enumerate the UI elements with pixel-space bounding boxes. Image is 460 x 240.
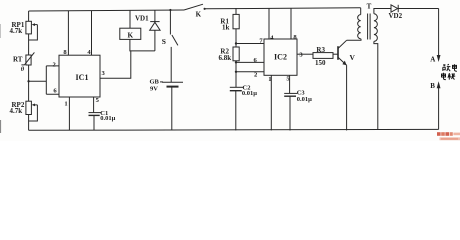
svg-text:T: T [367, 3, 372, 11]
battery GB 9V [150, 79, 184, 131]
potentiometer RP1 [10, 11, 38, 55]
wire IC1 pin4 to rail [91, 11, 93, 55]
relay coil K [120, 10, 155, 51]
capacitor C2 [230, 84, 257, 130]
switch S [162, 9, 178, 82]
svg-text:6.8k: 6.8k [219, 54, 232, 62]
scan smudge left edge [0, 120, 2, 133]
resistor R3 [297, 46, 338, 67]
svg-text:4: 4 [270, 34, 274, 41]
svg-text:K: K [196, 10, 202, 18]
wire IC1 pin1 to bottom rail [68, 97, 70, 130]
node R2/C2 junction [235, 61, 237, 63]
svg-text:3: 3 [102, 70, 106, 77]
wire bottom rail [29, 128, 439, 131]
svg-text:IC2: IC2 [274, 53, 287, 62]
wire top rail right [205, 8, 361, 9]
svg-text:9V: 9V [150, 85, 158, 92]
diode VD1 [135, 10, 160, 51]
svg-text:3: 3 [299, 52, 303, 59]
wire IC1 pin8 to rail [67, 11, 69, 55]
wire tap to pins 2+6 jumper [29, 66, 59, 94]
svg-text:V: V [350, 53, 356, 62]
node R1/R2 junction pin7 [235, 42, 237, 44]
label 放电 (discharge) glyphs [443, 64, 457, 71]
capacitor C3 [284, 90, 312, 131]
svg-text:4.7k: 4.7k [10, 27, 23, 35]
svg-text:B: B [430, 82, 435, 90]
svg-text:6: 6 [254, 57, 258, 64]
svg-text:S: S [162, 37, 166, 46]
svg-text:RT: RT [13, 56, 23, 64]
svg-text:0.01μ: 0.01μ [297, 96, 312, 103]
svg-text:0.01μ: 0.01μ [242, 90, 257, 97]
transformer T [358, 3, 391, 130]
wire down to C2 [235, 72, 237, 87]
potentiometer RP2 [10, 101, 38, 130]
svg-text:1k: 1k [222, 24, 230, 32]
svg-text:2: 2 [254, 72, 258, 79]
resistor R2 [219, 44, 240, 63]
relay contact switch K [184, 4, 206, 18]
svg-text:5: 5 [96, 97, 100, 104]
svg-text:A: A [430, 55, 435, 63]
timer IC2 [254, 34, 304, 83]
wire pin2 stub [236, 71, 264, 73]
electrode B [430, 81, 440, 129]
svg-text:0.01μ: 0.01μ [100, 115, 115, 122]
wire top rail left [29, 10, 184, 11]
svg-text:R3: R3 [316, 46, 325, 54]
wire IC2 pin5 to C3 [289, 75, 291, 93]
wire collector to transformer primary [347, 39, 361, 41]
svg-text:1: 1 [64, 100, 67, 107]
wire IC1 pin5 to C1 [93, 97, 95, 112]
svg-text:4.7k: 4.7k [10, 107, 23, 115]
op-amp/timer IC1 [53, 49, 106, 107]
svg-text:IC1: IC1 [76, 73, 89, 82]
svg-text:K: K [128, 31, 134, 39]
svg-text:150: 150 [315, 59, 326, 67]
wire IC2 pin1 to bottom rail [270, 75, 272, 130]
svg-text:VD2: VD2 [389, 12, 403, 20]
wire IC1 pin3 to relay node [100, 51, 131, 78]
capacitor C1 [89, 110, 116, 130]
svg-text:6: 6 [53, 87, 57, 94]
wire pin7 stub [236, 43, 264, 45]
thermistor RT [13, 52, 34, 101]
wire IC2 pin4 to rail [268, 8, 270, 39]
wire pin6 stub [236, 61, 264, 63]
watermark logo [437, 132, 460, 140]
resistor R1 [220, 8, 239, 44]
electrode A [430, 9, 440, 64]
svg-text:θ: θ [21, 66, 25, 73]
transistor V [338, 40, 356, 130]
wire down to pin2 stub [235, 62, 237, 71]
wire IC2 pin8 to rail [290, 8, 292, 39]
svg-text:VD1: VD1 [135, 15, 149, 23]
label 电极 (electrode) glyphs [442, 73, 456, 80]
diode VD2 [389, 5, 439, 20]
svg-text:2: 2 [53, 62, 57, 69]
node junction RT/RP2 tap [27, 80, 29, 82]
